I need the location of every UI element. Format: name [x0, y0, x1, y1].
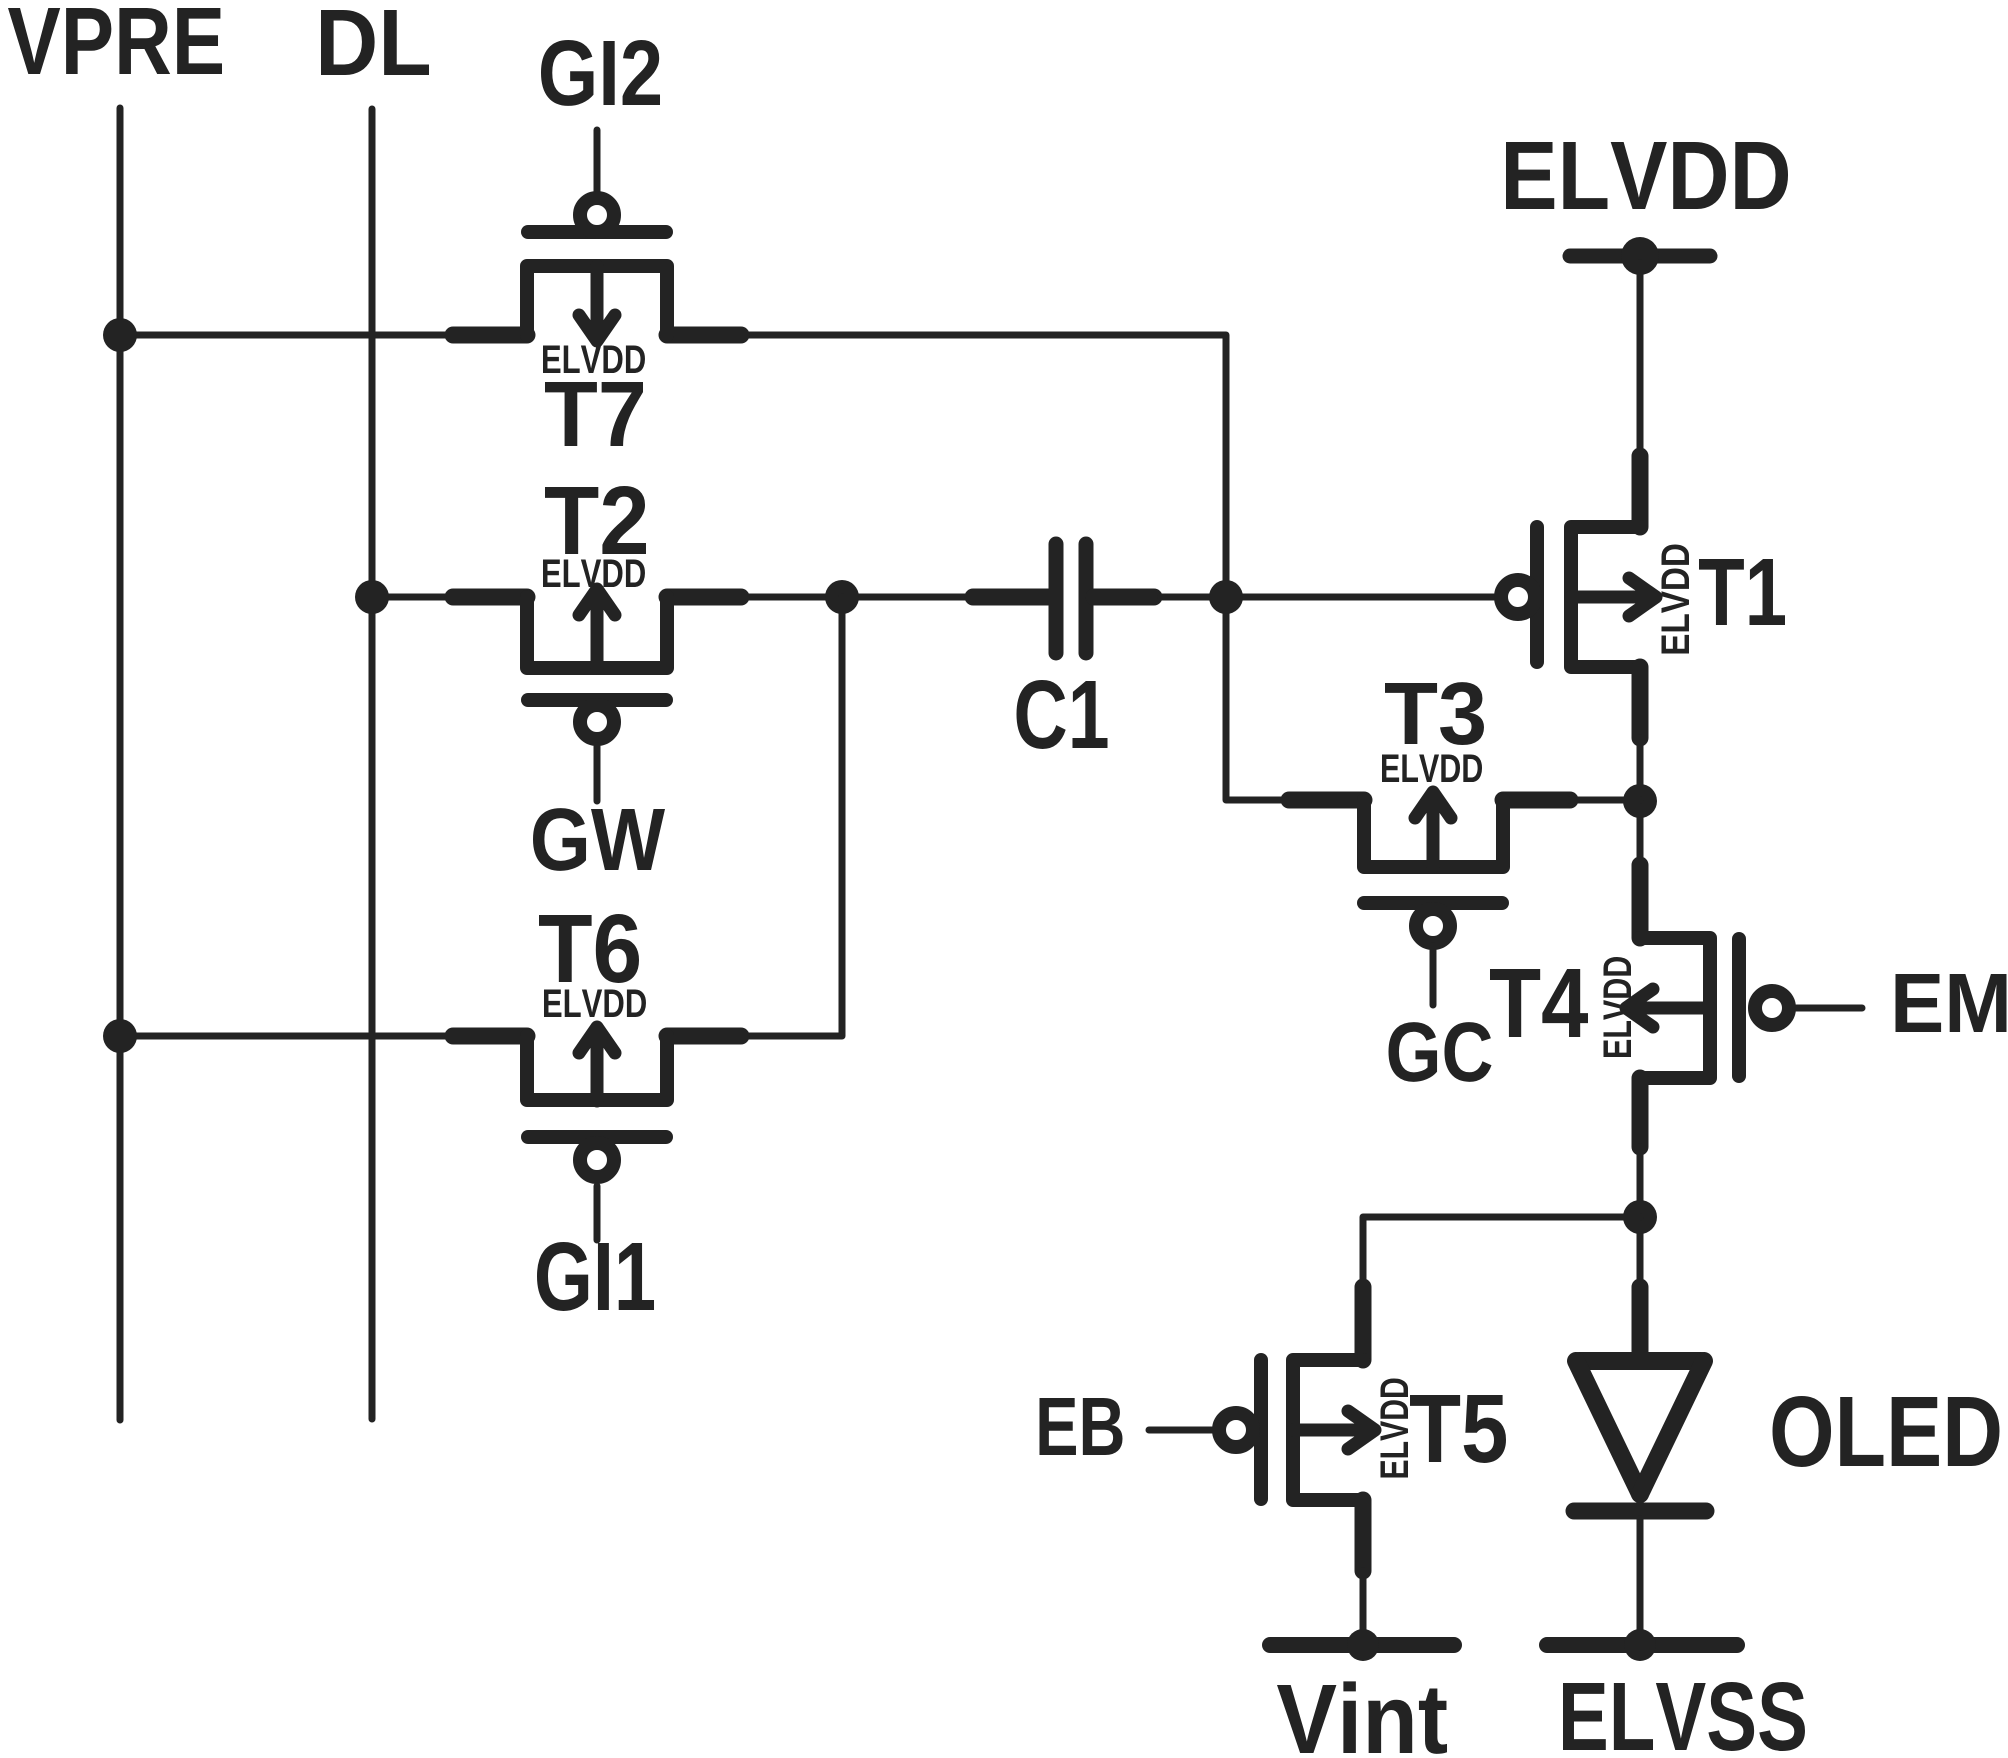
T5 channel staple — [1293, 1360, 1363, 1500]
T7 bulk ELVDD small label — [543, 345, 645, 373]
T4 drain stub top — [1632, 865, 1649, 938]
node Vint dot — [1347, 1629, 1379, 1661]
T2 channel staple — [527, 597, 667, 668]
OLED triangle left side — [1576, 1361, 1640, 1494]
wire T3 right to node C — [1570, 797, 1640, 804]
node A dot — [825, 580, 859, 614]
T4 source stub bottom — [1632, 1078, 1649, 1147]
T5 bulk arrow — [1293, 1411, 1375, 1449]
T1 bulk arrow — [1571, 578, 1656, 616]
T3 gate bar — [1364, 896, 1502, 910]
T6 gate bar — [528, 1130, 666, 1144]
net GW label — [533, 808, 665, 871]
transistor T6 — [453, 989, 741, 1177]
power ELVSS rail bar — [1547, 1637, 1737, 1653]
wire EB to T5 gate — [1149, 1427, 1212, 1434]
transistor T2 — [453, 559, 741, 739]
T7 gate bar — [528, 225, 666, 239]
OLED label — [1773, 1396, 2000, 1467]
T3 gate bubble — [1416, 909, 1450, 943]
node D dot — [1623, 1200, 1657, 1234]
C1 value label — [1016, 680, 1107, 749]
wire GI1 gate lead — [594, 1186, 601, 1240]
OLED triangle right side — [1640, 1361, 1704, 1494]
wire T4 to node D — [1637, 1147, 1644, 1287]
net ELVSS label — [1563, 1682, 1805, 1751]
wire ELVDD rail to T1 — [1637, 263, 1644, 455]
T2 drain stub — [667, 589, 741, 606]
net GC label — [1389, 1022, 1492, 1082]
wire row C: VPRE to T6 left stub — [120, 1033, 453, 1040]
T6 bulk arrow — [579, 1027, 615, 1101]
power Vint rail bar — [1270, 1637, 1454, 1653]
capacitor C1 — [973, 544, 1154, 749]
T2 bulk arrow — [579, 589, 615, 668]
wire row B: DL to T2 left stub — [372, 594, 453, 601]
transistor T4 — [1490, 865, 1789, 1147]
node junction dot VPRE/T6 — [103, 1019, 137, 1053]
T5 reference label — [1410, 1395, 1506, 1463]
T1 gate bubble — [1501, 580, 1535, 614]
transistor T2 label — [545, 486, 646, 554]
transistor T7 — [453, 198, 741, 446]
C1 right plate — [1079, 544, 1094, 653]
T6 gate bubble — [580, 1143, 614, 1177]
wire node D to T5 top — [1363, 1217, 1640, 1287]
transistor T3 — [1289, 682, 1640, 943]
T4 bulk ELVDD small label (vertical) — [1603, 957, 1631, 1057]
T7 bulk arrow — [579, 266, 615, 341]
T6 drain stub — [667, 1028, 741, 1045]
T7 channel staple — [527, 266, 667, 335]
OLED anode stub — [1632, 1287, 1649, 1357]
C1 right lead stub — [1094, 589, 1154, 606]
T4 gate bubble — [1755, 991, 1789, 1025]
node junction dot DL/T2 — [355, 580, 389, 614]
T5 gate bubble — [1219, 1413, 1253, 1447]
T2 bulk ELVDD small label — [543, 559, 645, 587]
wire T5 to Vint rail — [1360, 1571, 1367, 1645]
T1 reference label — [1699, 559, 1785, 625]
T3 reference label — [1385, 682, 1484, 745]
wire row T7: VPRE to left stub — [120, 332, 453, 339]
T1 gate bar — [1530, 527, 1544, 662]
T6 source stub — [453, 1028, 527, 1045]
net ELVDD label — [1506, 142, 1788, 209]
transistor T5 — [1219, 1287, 1506, 1571]
transistor T1 — [1501, 456, 1785, 738]
T4 channel staple — [1640, 938, 1710, 1078]
T5 source stub bottom — [1355, 1500, 1372, 1571]
OLED cathode bar — [1574, 1503, 1706, 1520]
T6 bulk ELVDD small label — [544, 989, 646, 1017]
wire node A down and T6 right wire — [741, 597, 842, 1036]
T4 bulk arrow — [1626, 989, 1710, 1027]
OLED triangle top bar — [1579, 1352, 1701, 1370]
wire T4 gate to EM — [1796, 1005, 1862, 1012]
T4 gate bar — [1732, 939, 1746, 1076]
T3 right stub — [1503, 792, 1570, 809]
T3 bulk ELVDD small label — [1382, 754, 1482, 782]
net VPRE label — [8, 8, 222, 74]
wire GI2 gate lead — [594, 130, 601, 192]
T1 source stub bottom — [1632, 667, 1649, 738]
T1 channel staple — [1571, 527, 1640, 667]
wire T2 right to node A — [741, 594, 965, 601]
T7 source stub — [453, 327, 527, 344]
wire VPRE vertical line — [117, 108, 124, 1420]
wire GW gate lead — [594, 746, 601, 801]
T2 gate bar — [528, 693, 666, 707]
wire row T7 right segment with corner down to node B — [741, 335, 1289, 800]
node ELVSS dot — [1624, 1629, 1656, 1661]
wire T1 to node C — [1637, 738, 1644, 865]
node C dot — [1623, 784, 1657, 818]
T5 gate bar — [1254, 1360, 1268, 1499]
T7 gate bubble — [580, 198, 614, 232]
C1 left lead stub — [973, 589, 1048, 606]
net GI1 label — [537, 1242, 654, 1311]
net EM label — [1896, 974, 2007, 1032]
T1 bulk ELVDD small label (vertical) — [1661, 544, 1689, 653]
transistor T6 label — [539, 914, 639, 983]
power ELVDD rail bar — [1570, 249, 1710, 264]
net EB label — [1039, 1398, 1122, 1455]
net GI2 label — [541, 40, 660, 106]
wire GC gate lead — [1430, 946, 1437, 1005]
C1 left plate — [1049, 544, 1064, 653]
net DL label — [321, 10, 429, 75]
T4 reference label — [1490, 969, 1588, 1037]
T5 drain stub top — [1355, 1287, 1372, 1360]
T2 gate bubble — [580, 705, 614, 739]
T3 bulk arrow — [1415, 792, 1451, 867]
wire node B row to T1 gate — [1161, 594, 1494, 601]
T2 source stub — [453, 589, 527, 606]
wire DL vertical line — [369, 109, 376, 1419]
net Vint label — [1277, 1681, 1447, 1753]
T1 drain stub top — [1632, 456, 1649, 527]
T7 reference label — [545, 382, 643, 446]
node ELVDD rail dot — [1621, 237, 1659, 275]
node junction dot VPRE/T7 — [103, 318, 137, 352]
T3 channel staple — [1364, 800, 1503, 867]
T6 channel staple — [527, 1036, 667, 1100]
node B dot — [1209, 580, 1243, 614]
T7 drain stub — [667, 327, 741, 344]
wire OLED to ELVSS rail — [1637, 1519, 1644, 1645]
diode OLED — [1574, 1287, 2000, 1511]
T5 bulk ELVDD small label (vertical) — [1380, 1378, 1408, 1477]
T3 left stub — [1289, 792, 1364, 809]
